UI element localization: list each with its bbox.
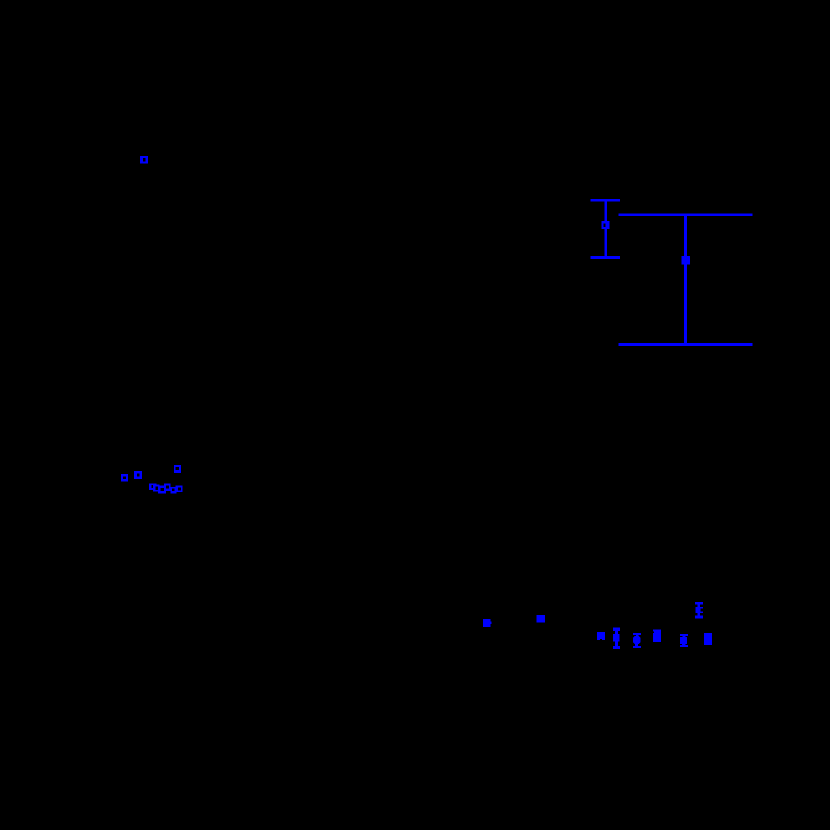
wire N1 vertical segment: [604, 200, 607, 257]
via V3: [121, 474, 128, 482]
wire N2 bottom horizontal segment: [619, 343, 753, 346]
via V1: [140, 156, 148, 164]
footprint F3 (pad-via-pad): [680, 634, 688, 647]
via V10: [170, 487, 176, 494]
wire N2 vertical segment: [684, 214, 687, 345]
pad P6: [704, 633, 712, 645]
via V8: [158, 486, 166, 494]
pad P2: [483, 619, 491, 627]
via V11: [175, 486, 182, 492]
footprint F2 (pad-round pad-pad): [633, 633, 641, 648]
pad P1 on wire N2: [682, 256, 691, 264]
via V7: [153, 485, 159, 492]
footprint F1 (pad-via-pad): [613, 628, 620, 649]
wire N1 bottom cap (net segment): [591, 256, 620, 259]
pad P3: [537, 615, 545, 622]
pad P5: [653, 630, 661, 642]
via V4: [134, 471, 142, 479]
via V9: [164, 483, 171, 491]
via V6: [149, 484, 157, 490]
pad P4: [597, 632, 605, 640]
wire N1 top cap (net segment): [591, 199, 620, 201]
wire N2 top horizontal segment: [619, 213, 753, 216]
via V5: [174, 465, 181, 473]
footprint F4 (pad-via-pad): [695, 602, 703, 619]
via V2 on wire N1: [602, 221, 610, 229]
